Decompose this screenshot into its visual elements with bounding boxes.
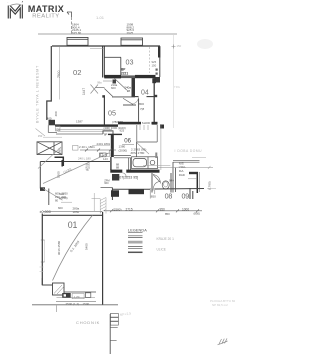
- left wall room 03: [120, 57, 122, 75]
- window sill lines under room 02: [58, 130, 112, 132]
- svg-text:1850: 1850: [73, 210, 80, 214]
- svg-text:I DOBA DOMU: I DOBA DOMU: [175, 149, 203, 153]
- svg-text:98a: 98a: [97, 81, 102, 85]
- dim text cluster left wing top: [72, 23, 82, 35]
- svg-text:150: 150: [152, 64, 157, 68]
- left wall room 02: [47, 46, 52, 120]
- svg-text:03: 03: [126, 58, 134, 67]
- top wall room 06: [108, 133, 122, 135]
- right wall room 03: [159, 46, 161, 77]
- svg-text:TRG: TRG: [174, 85, 180, 89]
- svg-text:1500: 1500: [83, 302, 90, 306]
- stair tick 1: [110, 327, 118, 329]
- stairs wall: [109, 314, 111, 354]
- bottom wall rooms 02-05: [55, 124, 118, 126]
- svg-text:01: 01: [68, 220, 78, 230]
- sill line top 02: [90, 48, 104, 50]
- top wall main: [52, 45, 160, 47]
- short double line right of bath: [143, 164, 170, 166]
- long diagonal path: [43, 153, 110, 184]
- wc wall top mark: [155, 153, 157, 159]
- divider wall room 07: [138, 99, 140, 122]
- dim line above room 01: [43, 210, 102, 212]
- sink boxes: [100, 153, 107, 157]
- dark block end: [154, 95, 157, 97]
- svg-text:960: 960: [104, 181, 109, 185]
- svg-text:KRAJE 20 1: KRAJE 20 1: [157, 237, 175, 241]
- svg-text:600: 600: [58, 206, 63, 210]
- door stop block: [102, 95, 105, 97]
- crossed rect terrace: [37, 142, 62, 155]
- svg-text:CHODNIK: CHODNIK: [76, 320, 100, 325]
- faint line y145.6: [92, 145, 110, 147]
- door arc wc 1: [153, 175, 161, 184]
- texts room 07: [139, 102, 144, 111]
- svg-text:925: 925: [120, 129, 125, 133]
- dashed line room 03: [148, 47, 150, 73]
- faint line top right: [192, 156, 206, 158]
- bathtub: [132, 157, 158, 169]
- window ticks left wall: [41, 240, 45, 262]
- svg-text:08: 08: [165, 192, 173, 201]
- dim text cluster right wing top: [127, 23, 135, 35]
- section dash line: [71, 17, 73, 34]
- svg-text:400: 400: [54, 111, 58, 116]
- wall under terrace: [40, 161, 110, 163]
- logo M icon: [6, 2, 25, 18]
- right wall room 02 upper: [103, 46, 105, 78]
- diagonal extension from rect: [38, 147, 61, 169]
- door arc room 04: [132, 97, 139, 104]
- bottom wall mid-right: [112, 188, 204, 191]
- svg-text:ZPM 2780: ZPM 2780: [131, 151, 145, 155]
- entry box: [53, 283, 65, 295]
- legend bar 1: [128, 236, 143, 238]
- door leaf diagonal: [123, 98, 133, 104]
- bottom wall room 04 left: [135, 96, 139, 98]
- svg-text:06: 06: [124, 138, 131, 145]
- door threshold line: [95, 87, 105, 89]
- bathroom left wall: [129, 158, 131, 170]
- stair tick 2: [110, 340, 116, 342]
- svg-text:940: 940: [169, 179, 174, 183]
- tick on boundary: [172, 45, 176, 49]
- svg-text:09: 09: [182, 192, 190, 201]
- svg-text:2500 (1,2): 2500 (1,2): [66, 302, 80, 306]
- texts right room: [179, 161, 186, 176]
- thick wall bathroom: [110, 170, 122, 173]
- stair door leaf: [137, 143, 149, 154]
- bay window room 03: [121, 38, 143, 45]
- svg-text:2221: 2221: [121, 72, 128, 76]
- faint smudge top right: [197, 39, 213, 49]
- sidewalk line: [32, 304, 118, 306]
- dark pier bottom left: [49, 120, 56, 126]
- small wall bits right of 03: [156, 69, 158, 71]
- wall step above room 01: [48, 189, 50, 206]
- vertical dim tick x94: [93, 193, 95, 211]
- signature: [218, 338, 228, 344]
- property line top: [38, 33, 177, 35]
- svg-text:850: 850: [165, 212, 170, 216]
- door arc wc 2: [153, 182, 160, 191]
- stacked texts mid: [86, 163, 91, 173]
- thick wall under room 03: [104, 75, 121, 79]
- small dark square right wing bottom: [160, 125, 164, 129]
- stair landing line: [92, 197, 101, 199]
- svg-text:1,2%: 1,2%: [74, 295, 81, 299]
- right room dark right wall: [196, 172, 198, 193]
- svg-text:143: 143: [103, 157, 108, 161]
- dim 600 (2050): [59, 192, 68, 200]
- hatch block stairs: [100, 198, 106, 214]
- window gray box: [56, 126, 61, 131]
- dim text BP: [121, 68, 128, 76]
- dark pier kitchen: [111, 135, 114, 157]
- wall bits below pier: [48, 125, 57, 132]
- svg-text:(850): (850): [194, 212, 201, 216]
- svg-text:150: 150: [177, 44, 182, 48]
- line y178.8: [188, 178, 197, 180]
- left outer wall mid: [39, 162, 41, 189]
- wall y105: [123, 104, 136, 106]
- legend bar 2: [128, 241, 143, 243]
- tiny text block left: [104, 178, 109, 185]
- wall y96.8: [112, 96, 135, 98]
- svg-text:(2050): (2050): [59, 196, 68, 200]
- svg-text:1500: 1500: [57, 171, 61, 178]
- toilet: [162, 181, 169, 189]
- door leaf diagonal 02: [104, 89, 112, 97]
- faint note bottom right: [210, 299, 236, 307]
- dim line kitchen with ticks: [80, 149, 116, 152]
- svg-text:(2580): (2580): [113, 207, 122, 211]
- bottom wall room 01: [42, 278, 52, 285]
- lower outline left: [56, 133, 103, 135]
- svg-text:88: 88: [116, 166, 119, 170]
- faint tick bottom right: [207, 187, 216, 189]
- svg-text:BYVLE TRYA L NEVESMT: BYVLE TRYA L NEVESMT: [36, 65, 40, 123]
- legend bar 3: [128, 247, 143, 249]
- svg-text:2715: 2715: [126, 207, 133, 211]
- svg-text:850: 850: [151, 195, 156, 199]
- svg-text:(1780): (1780): [208, 181, 212, 190]
- svg-text:800: 800: [139, 102, 144, 106]
- svg-text:(2000): (2000): [119, 148, 128, 152]
- svg-text:1-01: 1-01: [96, 15, 105, 20]
- tiny text block corridor: [116, 162, 119, 169]
- svg-text:7|8: 7|8: [140, 107, 144, 111]
- svg-text:8P: 8P: [104, 133, 108, 137]
- window boxes row: [62, 293, 70, 298]
- svg-text:600: 600: [111, 86, 116, 90]
- dim cluster A: [55, 192, 68, 203]
- svg-text:NP 82,5 m2: NP 82,5 m2: [212, 303, 228, 307]
- faint marks left low: [40, 267, 44, 272]
- svg-text:98: 98: [127, 89, 131, 93]
- closet top line: [105, 56, 122, 58]
- faint right face below 03: [160, 125, 162, 170]
- dark corner top of wall: [152, 78, 156, 83]
- svg-text:LEGENDA: LEGENDA: [128, 228, 147, 232]
- leader diagonal top-left: [36, 129, 46, 137]
- svg-text:2925: 2925: [127, 31, 134, 35]
- bay window room 02: [67, 38, 88, 46]
- double wall right: [190, 188, 193, 199]
- svg-text:ULICE: ULICE: [157, 247, 166, 251]
- svg-text:REALITY: REALITY: [32, 14, 59, 20]
- dim line bottom room 01: [56, 301, 96, 303]
- window inner line: [44, 240, 46, 262]
- tick below sidewalk: [56, 305, 58, 312]
- svg-text:625 80: 625 80: [72, 31, 82, 35]
- dark segment 2: [129, 189, 145, 194]
- corridor double lines: [114, 155, 131, 157]
- stairwell wall extension: [135, 142, 137, 157]
- dark corner block right: [155, 77, 160, 83]
- dark corner blob: [40, 187, 45, 191]
- tiny text niche: [111, 83, 118, 90]
- sill line bottom room 01: [57, 297, 96, 299]
- dim line bottom mid: [104, 209, 202, 212]
- dim line right long: [158, 166, 213, 169]
- dim line vertical left: [59, 47, 61, 100]
- svg-text:5400: 5400: [85, 243, 89, 250]
- svg-text:02: 02: [73, 68, 81, 77]
- tiny dims right of 03: [152, 60, 157, 68]
- dark top bar right room: [189, 172, 198, 174]
- svg-text:±0,000: ±0,000: [40, 210, 51, 214]
- svg-text:78: 78: [86, 168, 89, 172]
- faint line y137: [43, 136, 62, 138]
- dark pier room 04 left: [132, 78, 136, 97]
- dark pier top right: [158, 47, 160, 58]
- right wall rooms 04-07: [153, 78, 155, 124]
- svg-text:RAD: RAD: [179, 173, 185, 177]
- svg-text:1387: 1387: [76, 119, 83, 123]
- faint line right: [61, 201, 72, 203]
- diagonal room 01: [53, 215, 93, 280]
- svg-text:7900: 7900: [57, 70, 61, 78]
- svg-text:950: 950: [160, 208, 166, 212]
- svg-text:9016 2580: 9016 2580: [57, 240, 61, 255]
- svg-text:240 L 180: 240 L 180: [78, 156, 91, 160]
- dark segment 1: [111, 190, 119, 197]
- stairwell ticks: [140, 125, 148, 130]
- line bottom: [64, 291, 96, 293]
- corner bracket dark: [55, 157, 64, 166]
- short diagonal lower: [43, 188, 63, 200]
- legend underline: [128, 232, 143, 234]
- svg-text:04: 04: [141, 90, 149, 97]
- right room window top: [173, 161, 200, 163]
- dark blob niche 05: [113, 80, 117, 84]
- svg-text:1447: 1447: [82, 88, 86, 95]
- svg-text:1000: 1000: [182, 208, 189, 212]
- faint door cross: [91, 85, 99, 94]
- stair boxes: [110, 314, 118, 326]
- niche sill line: [103, 80, 112, 82]
- bottom wall right part: [118, 122, 141, 125]
- room 01 walls: [42, 212, 102, 305]
- stairwell box walls: [137, 125, 157, 142]
- svg-text:05: 05: [108, 109, 116, 118]
- bump rect: [103, 131, 113, 136]
- faint boundary line right: [173, 35, 175, 128]
- legend bar 4: [128, 251, 143, 253]
- svg-text:150: 150: [38, 134, 43, 138]
- bottom wall room 04 right: [147, 96, 155, 98]
- right room light right wall: [198, 172, 200, 192]
- tiny box left of dim: [73, 146, 79, 151]
- door leaf niche 05: [114, 78, 127, 90]
- svg-text:(780): (780): [112, 120, 119, 124]
- section mark arrow top: [67, 12, 72, 17]
- wc room walls: [152, 173, 171, 193]
- svg-text:07|2253 95]: 07|2253 95]: [119, 175, 138, 179]
- right wall room 02 lower: [103, 98, 105, 125]
- right room walls: [173, 162, 176, 193]
